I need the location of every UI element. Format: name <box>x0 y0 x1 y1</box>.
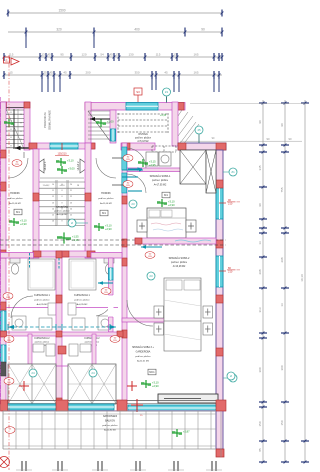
svg-text:ULAZ 2: ULAZ 2 <box>76 161 80 170</box>
svg-text:45: 45 <box>109 53 113 57</box>
svg-text:HODNIK: HODNIK <box>10 192 20 195</box>
svg-text:13: 13 <box>52 202 54 204</box>
svg-text:8: 8 <box>11 146 12 148</box>
svg-text:350: 350 <box>134 71 139 75</box>
svg-text:A=11,82 M2: A=11,82 M2 <box>104 429 116 432</box>
svg-text:165: 165 <box>193 71 198 75</box>
svg-text:10: 10 <box>52 184 54 186</box>
svg-text:8: 8 <box>21 114 22 116</box>
svg-text:120: 120 <box>81 53 86 57</box>
svg-text:150: 150 <box>258 421 262 426</box>
svg-text:ULAZ 1: ULAZ 1 <box>43 161 47 170</box>
svg-text:SPAVAĆA SOBA 3 +: SPAVAĆA SOBA 3 + <box>132 346 154 349</box>
svg-text:8: 8 <box>11 112 12 114</box>
svg-text:ODIMLJAVANJE: ODIMLJAVANJE <box>48 110 52 130</box>
svg-text:A=9,30 M2: A=9,30 M2 <box>57 213 68 216</box>
svg-text:90: 90 <box>258 120 262 124</box>
svg-text:pod ker. pločice: pod ker. pločice <box>102 424 118 427</box>
svg-text:OSTAVA: OSTAVA <box>138 133 148 136</box>
svg-text:298: 298 <box>258 269 262 274</box>
svg-text:90: 90 <box>258 203 262 207</box>
svg-text:A=11,06 M2: A=11,06 M2 <box>100 202 112 205</box>
svg-text:200: 200 <box>85 71 90 75</box>
svg-text:11: 11 <box>52 190 54 192</box>
svg-text:28: 28 <box>77 185 79 187</box>
svg-text:PROZOR ZA: PROZOR ZA <box>43 112 47 128</box>
svg-text:GARDEROBA: GARDEROBA <box>136 351 151 354</box>
svg-text:313: 313 <box>258 307 262 312</box>
svg-text:8: 8 <box>21 131 22 133</box>
svg-text:8: 8 <box>62 202 63 204</box>
svg-text:130: 130 <box>128 53 133 57</box>
svg-text:90: 90 <box>289 137 292 141</box>
svg-text:A=6,95 M2: A=6,95 M2 <box>77 303 88 306</box>
svg-text:45: 45 <box>63 71 67 75</box>
svg-text:15: 15 <box>9 71 13 75</box>
svg-text:M1: M1 <box>16 210 20 214</box>
svg-text:A=17,05 M2: A=17,05 M2 <box>154 184 167 187</box>
svg-text:300: 300 <box>258 367 262 372</box>
svg-text:90: 90 <box>280 123 284 127</box>
svg-text:+2,95: +2,95 <box>149 163 156 167</box>
svg-text:pod ker. pločice: pod ker. pločice <box>74 299 90 302</box>
svg-text:755: 755 <box>280 187 284 192</box>
svg-text:M1: M1 <box>164 193 168 197</box>
svg-text:1500: 1500 <box>58 9 65 13</box>
svg-text:Z1: Z1 <box>231 170 235 174</box>
svg-text:A=13,28 M2: A=13,28 M2 <box>173 265 186 268</box>
svg-text:45: 45 <box>47 53 51 57</box>
svg-text:pod ker. pločice: pod ker. pločice <box>7 197 23 200</box>
svg-text:150: 150 <box>280 420 284 425</box>
svg-text:15: 15 <box>52 215 54 217</box>
svg-text:24: 24 <box>70 208 72 210</box>
svg-text:NATKRIVENI: NATKRIVENI <box>103 415 118 418</box>
svg-text:320: 320 <box>56 28 62 32</box>
svg-text:8: 8 <box>62 190 63 192</box>
svg-text:54: 54 <box>100 53 104 57</box>
svg-text:KUPAONICA 1: KUPAONICA 1 <box>74 294 90 297</box>
svg-text:16: 16 <box>52 221 54 223</box>
svg-text:pod ker. pločice: pod ker. pločice <box>34 299 50 302</box>
svg-text:345: 345 <box>258 165 262 170</box>
svg-text:23: 23 <box>131 202 135 206</box>
svg-text:A=11,06 M2: A=11,06 M2 <box>9 202 21 205</box>
svg-text:+2,90: +2,90 <box>168 203 175 207</box>
svg-text:45: 45 <box>49 71 53 75</box>
svg-text:8: 8 <box>11 129 12 131</box>
svg-text:pod ker. pločice: pod ker. pločice <box>54 210 70 213</box>
svg-text:24: 24 <box>31 371 35 375</box>
svg-text:13: 13 <box>41 53 45 57</box>
svg-text:BALKON: BALKON <box>105 420 115 423</box>
svg-text:pod ker. pločice: pod ker. pločice <box>98 197 114 200</box>
svg-text:A=22,01 M2: A=22,01 M2 <box>137 360 150 363</box>
svg-text:8: 8 <box>21 122 22 124</box>
svg-text:8: 8 <box>62 196 63 198</box>
svg-text:8: 8 <box>11 137 12 139</box>
svg-text:pod ker. pločice: pod ker. pločice <box>35 341 50 344</box>
svg-text:300: 300 <box>280 365 284 370</box>
svg-text:90: 90 <box>201 28 205 32</box>
svg-text:17x18,2: 17x18,2 <box>43 185 50 187</box>
svg-text:A=6,95 M2: A=6,95 M2 <box>37 303 48 306</box>
svg-text:+2,90: +2,90 <box>20 222 27 226</box>
svg-text:13: 13 <box>173 53 177 57</box>
svg-text:S3: S3 <box>136 90 140 94</box>
svg-text:S: S <box>5 59 7 63</box>
svg-text:25: 25 <box>70 215 72 217</box>
svg-text:pod ker. pločice: pod ker. pločice <box>135 355 151 358</box>
svg-text:+3,10: +3,10 <box>67 159 74 163</box>
svg-text:M1: M1 <box>102 211 106 215</box>
svg-text:A=5,18 M2: A=5,18 M2 <box>137 140 149 143</box>
svg-text:95: 95 <box>60 53 64 57</box>
svg-text:115: 115 <box>156 53 161 57</box>
svg-text:SPAVAĆA SOBA 1: SPAVAĆA SOBA 1 <box>150 175 171 178</box>
svg-text:SPAVAĆA SOBA 2: SPAVAĆA SOBA 2 <box>169 257 190 260</box>
svg-text:13: 13 <box>115 53 119 57</box>
svg-text:2i: 2i <box>230 374 233 378</box>
svg-text:KUPAONICA 1: KUPAONICA 1 <box>34 294 50 297</box>
svg-text:pod ker. pločice: pod ker. pločice <box>171 261 188 264</box>
svg-text:12: 12 <box>52 196 54 198</box>
svg-text:=3,10: =3,10 <box>60 185 65 187</box>
svg-text:22: 22 <box>70 196 72 198</box>
svg-text:45: 45 <box>164 71 168 75</box>
svg-text:23: 23 <box>70 202 72 204</box>
svg-text:23: 23 <box>149 274 153 278</box>
svg-text:8: 8 <box>21 139 22 141</box>
svg-text:+3,00: +3,00 <box>68 167 75 171</box>
svg-text:Z1: Z1 <box>165 90 169 94</box>
svg-text:NK1: NK1 <box>149 370 155 374</box>
svg-text:24: 24 <box>91 371 95 375</box>
svg-text:8: 8 <box>62 221 63 223</box>
svg-text:+3,00: +3,00 <box>107 120 114 124</box>
svg-text:85: 85 <box>258 448 262 452</box>
svg-text:13: 13 <box>258 241 262 245</box>
svg-text:115: 115 <box>9 53 14 57</box>
svg-text:45: 45 <box>197 128 201 132</box>
svg-text:400: 400 <box>134 28 140 32</box>
svg-text:pod ker. pločice: pod ker. pločice <box>135 137 152 140</box>
svg-text:+2,90: +2,90 <box>152 384 159 388</box>
svg-text:KUPAONICA 2: KUPAONICA 2 <box>34 337 50 340</box>
svg-text:298: 298 <box>280 257 284 262</box>
svg-text:+2,90: +2,90 <box>105 227 112 231</box>
svg-text:20: 20 <box>70 184 72 186</box>
svg-text:+3,15: +3,15 <box>160 114 167 117</box>
svg-text:HODNIK: HODNIK <box>101 192 111 195</box>
svg-text:2i: 2i <box>71 221 74 225</box>
svg-text:10,10: 10,10 <box>300 274 304 282</box>
svg-text:90: 90 <box>267 137 270 141</box>
svg-text:8: 8 <box>11 120 12 122</box>
svg-text:21: 21 <box>70 190 72 192</box>
svg-text:13: 13 <box>280 303 284 307</box>
svg-text:STUBIŠTE: STUBIŠTE <box>56 206 68 209</box>
svg-text:165: 165 <box>193 53 198 57</box>
svg-text:pod ker. pločice: pod ker. pločice <box>152 179 169 182</box>
svg-text:+2,87: +2,87 <box>183 430 190 434</box>
svg-text:25: 25 <box>43 71 47 75</box>
